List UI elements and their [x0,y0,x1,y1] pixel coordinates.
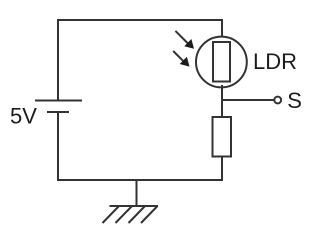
svg-text:LDR: LDR [253,49,297,74]
svg-text:S: S [287,88,302,113]
svg-text:5V: 5V [10,103,37,128]
